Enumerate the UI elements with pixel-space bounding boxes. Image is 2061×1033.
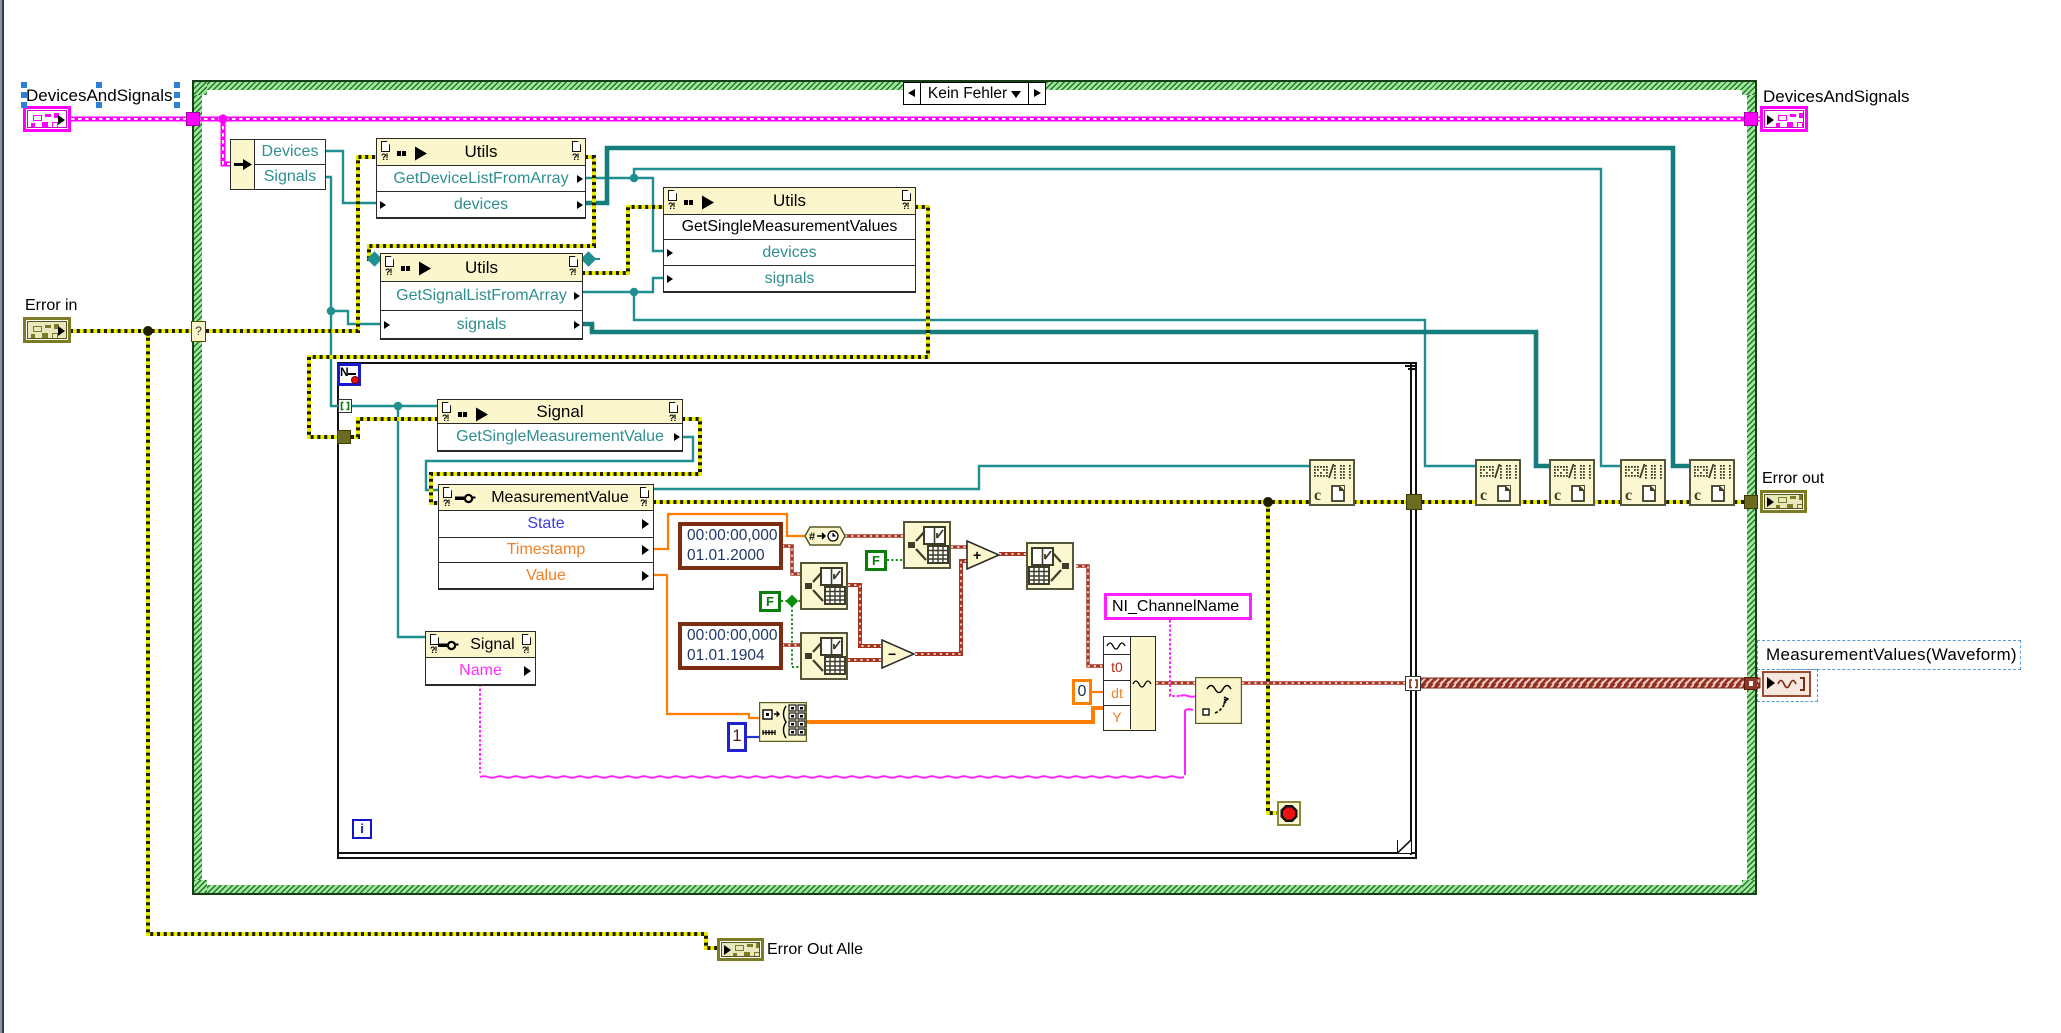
wire error Utils1 to Utils2 [369,157,594,259]
wire error selector to Utils1 [206,157,377,331]
label DevicesAndSignals right [1763,87,1909,107]
wire DevicesAndSignals main (pink cluster) [71,117,1760,122]
wire minus out to plus [915,561,967,654]
wire Devices string to Utils1 [325,151,377,203]
add node [966,540,1000,570]
svg-text:c: c [1694,487,1701,504]
selection rect MeasurementValues terminal [1757,669,1818,702]
case border corner BR [1742,880,1757,895]
wire node D to t0 [1076,566,1104,666]
svg-text:c: c [1314,487,1321,504]
tunnel waveform loop right (indexing) [1405,676,1421,691]
wire error inside loop to Signal VI [351,419,438,437]
selection handles [21,82,27,88]
wire ToTimeStamp out to node A [845,534,903,537]
wire F2 to node B [781,600,800,602]
tunnel pink case left [186,112,200,126]
wire timestamp const 1904 to node C [782,643,800,646]
wire signal string branch to conversion box2 [634,292,1475,466]
wire node C to minus [848,658,881,662]
control terminal Error in [23,317,71,343]
wire error Signal VI to MeasurementValue [431,419,700,503]
wire F1 to node A [887,559,903,561]
svg-text:+: + [973,547,981,563]
junction error in [143,326,153,336]
wire NI_ChannelName down to set attribute [1170,620,1180,696]
date-time node D (date to seconds, mirrored) [1026,542,1074,590]
conversion node box5 [1689,459,1735,506]
timestamp constant 01.01.2000 [678,522,783,570]
case structure border top [192,80,1757,95]
wire signal branch down to Signal Name property node [398,406,426,637]
wire signal string: Utils2 out to Utils3 signals [582,278,664,292]
wire timestamp const 2000 to node B [782,546,800,574]
junction teal device string [630,174,639,183]
label Error out [1762,470,1824,488]
timestamp constant 01.01.1904 [678,622,783,670]
subVI Utils GetSingleMeasurementValues [663,187,916,293]
control terminal DevicesAndSignals (left) [23,106,71,132]
wire waveform build to set attribute [1156,681,1195,684]
coercion diamond green [786,595,799,608]
wire error branch down to Error Out Alle [148,331,718,948]
unbundle by name node DevicesAndSignals [230,139,326,190]
indicator terminal Error out [1760,490,1807,513]
tunnel pink case right [1744,112,1758,126]
wire Name property out (squiggly) to set attribute [479,684,481,773]
date-time node C [800,632,848,680]
wire error Utils3 around to loop tunnel [309,207,928,437]
case structure border right [1742,80,1757,895]
numeric constant 0 [1072,679,1092,705]
wire plus out to node D [999,552,1026,556]
wire device string: Utils1 out to Utils3 devices [585,178,664,251]
tunnel error loop left [337,430,351,444]
tunnel index loop left [338,399,352,413]
to-timestamp conversion node [804,526,846,546]
build array node [759,702,807,742]
svg-text:−: − [888,646,896,662]
window left edge line [0,0,2,1033]
wire 0 constant to dt [1091,691,1104,693]
invoke node Signal GetSingleMeasurementValue [437,399,683,452]
wire node A to plus [951,545,967,548]
coercion diamond teal right [581,251,597,267]
label Error Out Alle [767,941,863,959]
wire devices array: Utils1 devices out to conversion box5 (thick) [585,148,1689,466]
set waveform attribute node [1195,677,1242,724]
junction error in loop [1263,497,1273,507]
for loop count terminal N [337,363,361,386]
subVI Utils GetSignalListFromArray [380,253,583,340]
for loop corner stack marks [1405,365,1417,367]
wire error branch down to stop [1268,502,1278,813]
case selector question tunnel [191,321,206,342]
junction teal in loop [394,402,403,411]
label MeasurementValues(Waveform) [1766,645,2017,665]
stop button terminal [1277,801,1301,826]
wire error MeasurementValue to Error out [653,500,1745,504]
case border corner TL [192,80,207,95]
wire pink branch to unbundle [223,119,231,164]
conversion node box4 [1620,459,1666,506]
for loop inner bottom line [339,852,1415,854]
build waveform node (t0 dt Y) [1103,636,1156,731]
svg-text:#: # [809,531,815,543]
subVI Utils GetDeviceListFromArray [376,138,586,219]
indicator terminal MeasurementValues waveform array [1762,671,1811,697]
wire error in to case selector [70,329,206,333]
wire signal array into loop to Signal VI [351,405,438,407]
tunnel error loop right [1406,494,1422,510]
wire node B to minus [848,585,881,646]
wire MeasurementValue ref out to conversion box1 [653,466,1309,489]
date-time node B [800,562,848,610]
tunnel waveform case right [1744,677,1758,690]
indicator terminal DevicesAndSignals (right) [1760,106,1808,132]
wire array out of build array to Y input (thick orange) [806,708,1104,722]
label DevicesAndSignals left [26,86,172,106]
svg-text:c: c [1625,487,1632,504]
boolean constant F2 False [759,591,781,612]
case structure border left [192,80,207,895]
for loop inner right line [1410,364,1412,855]
wire 1 constant to build array [746,736,760,738]
property node MeasurementValue (State Timestamp Value) [438,484,654,590]
property node Signal Name [425,631,536,686]
for loop frame [337,362,1417,859]
wire waveform array out of loop (hatched thick) [1420,678,1760,688]
junction teal Signals [327,307,336,316]
wire signals array: Utils2 signals out to conversion box3 (thick) [582,324,1549,466]
case border corner TR [1742,80,1757,95]
label Error in [25,297,77,315]
string constant NI_ChannelName [1104,593,1252,620]
case border corner BL [192,880,207,895]
subtract node [881,639,915,669]
for loop iteration terminal i [352,819,372,839]
indicator terminal Error Out Alle [717,938,764,961]
date-time node A (seconds to date) [903,521,951,569]
tunnel error case right [1744,495,1758,509]
wire error Utils2 to Utils3 [582,207,664,273]
svg-text:c: c [1480,487,1487,504]
wire Timestamp to ToTimeStamp [653,514,806,549]
selection rect MeasurementValues label [1757,640,2021,670]
wire F2 branch to node C [792,601,800,667]
wire Signals branch to Utils2 signals input [331,311,380,324]
case structure border bottom [192,880,1757,895]
wire device string riser to conversion box4 [634,169,1620,466]
boolean constant F1 False [865,550,887,571]
conversion node box3 [1549,459,1595,506]
case selector Kein Fehler [903,82,1046,105]
junction pink node [218,114,227,123]
numeric constant 1 [727,722,747,752]
coercion diamond teal left [367,251,383,267]
for loop dog-ear fold [1397,840,1411,853]
wire waveform set attribute to loop tunnel [1242,681,1406,684]
conversion node box1 [1309,459,1355,506]
svg-text:c: c [1554,487,1561,504]
wire Value to build array [653,575,760,718]
wire Signals string down to loop tunnel [325,177,339,406]
wire Signal VI ref out to MeasurementValue node [426,437,693,490]
conversion node box2 [1475,459,1521,506]
junction teal signal string [630,288,639,297]
